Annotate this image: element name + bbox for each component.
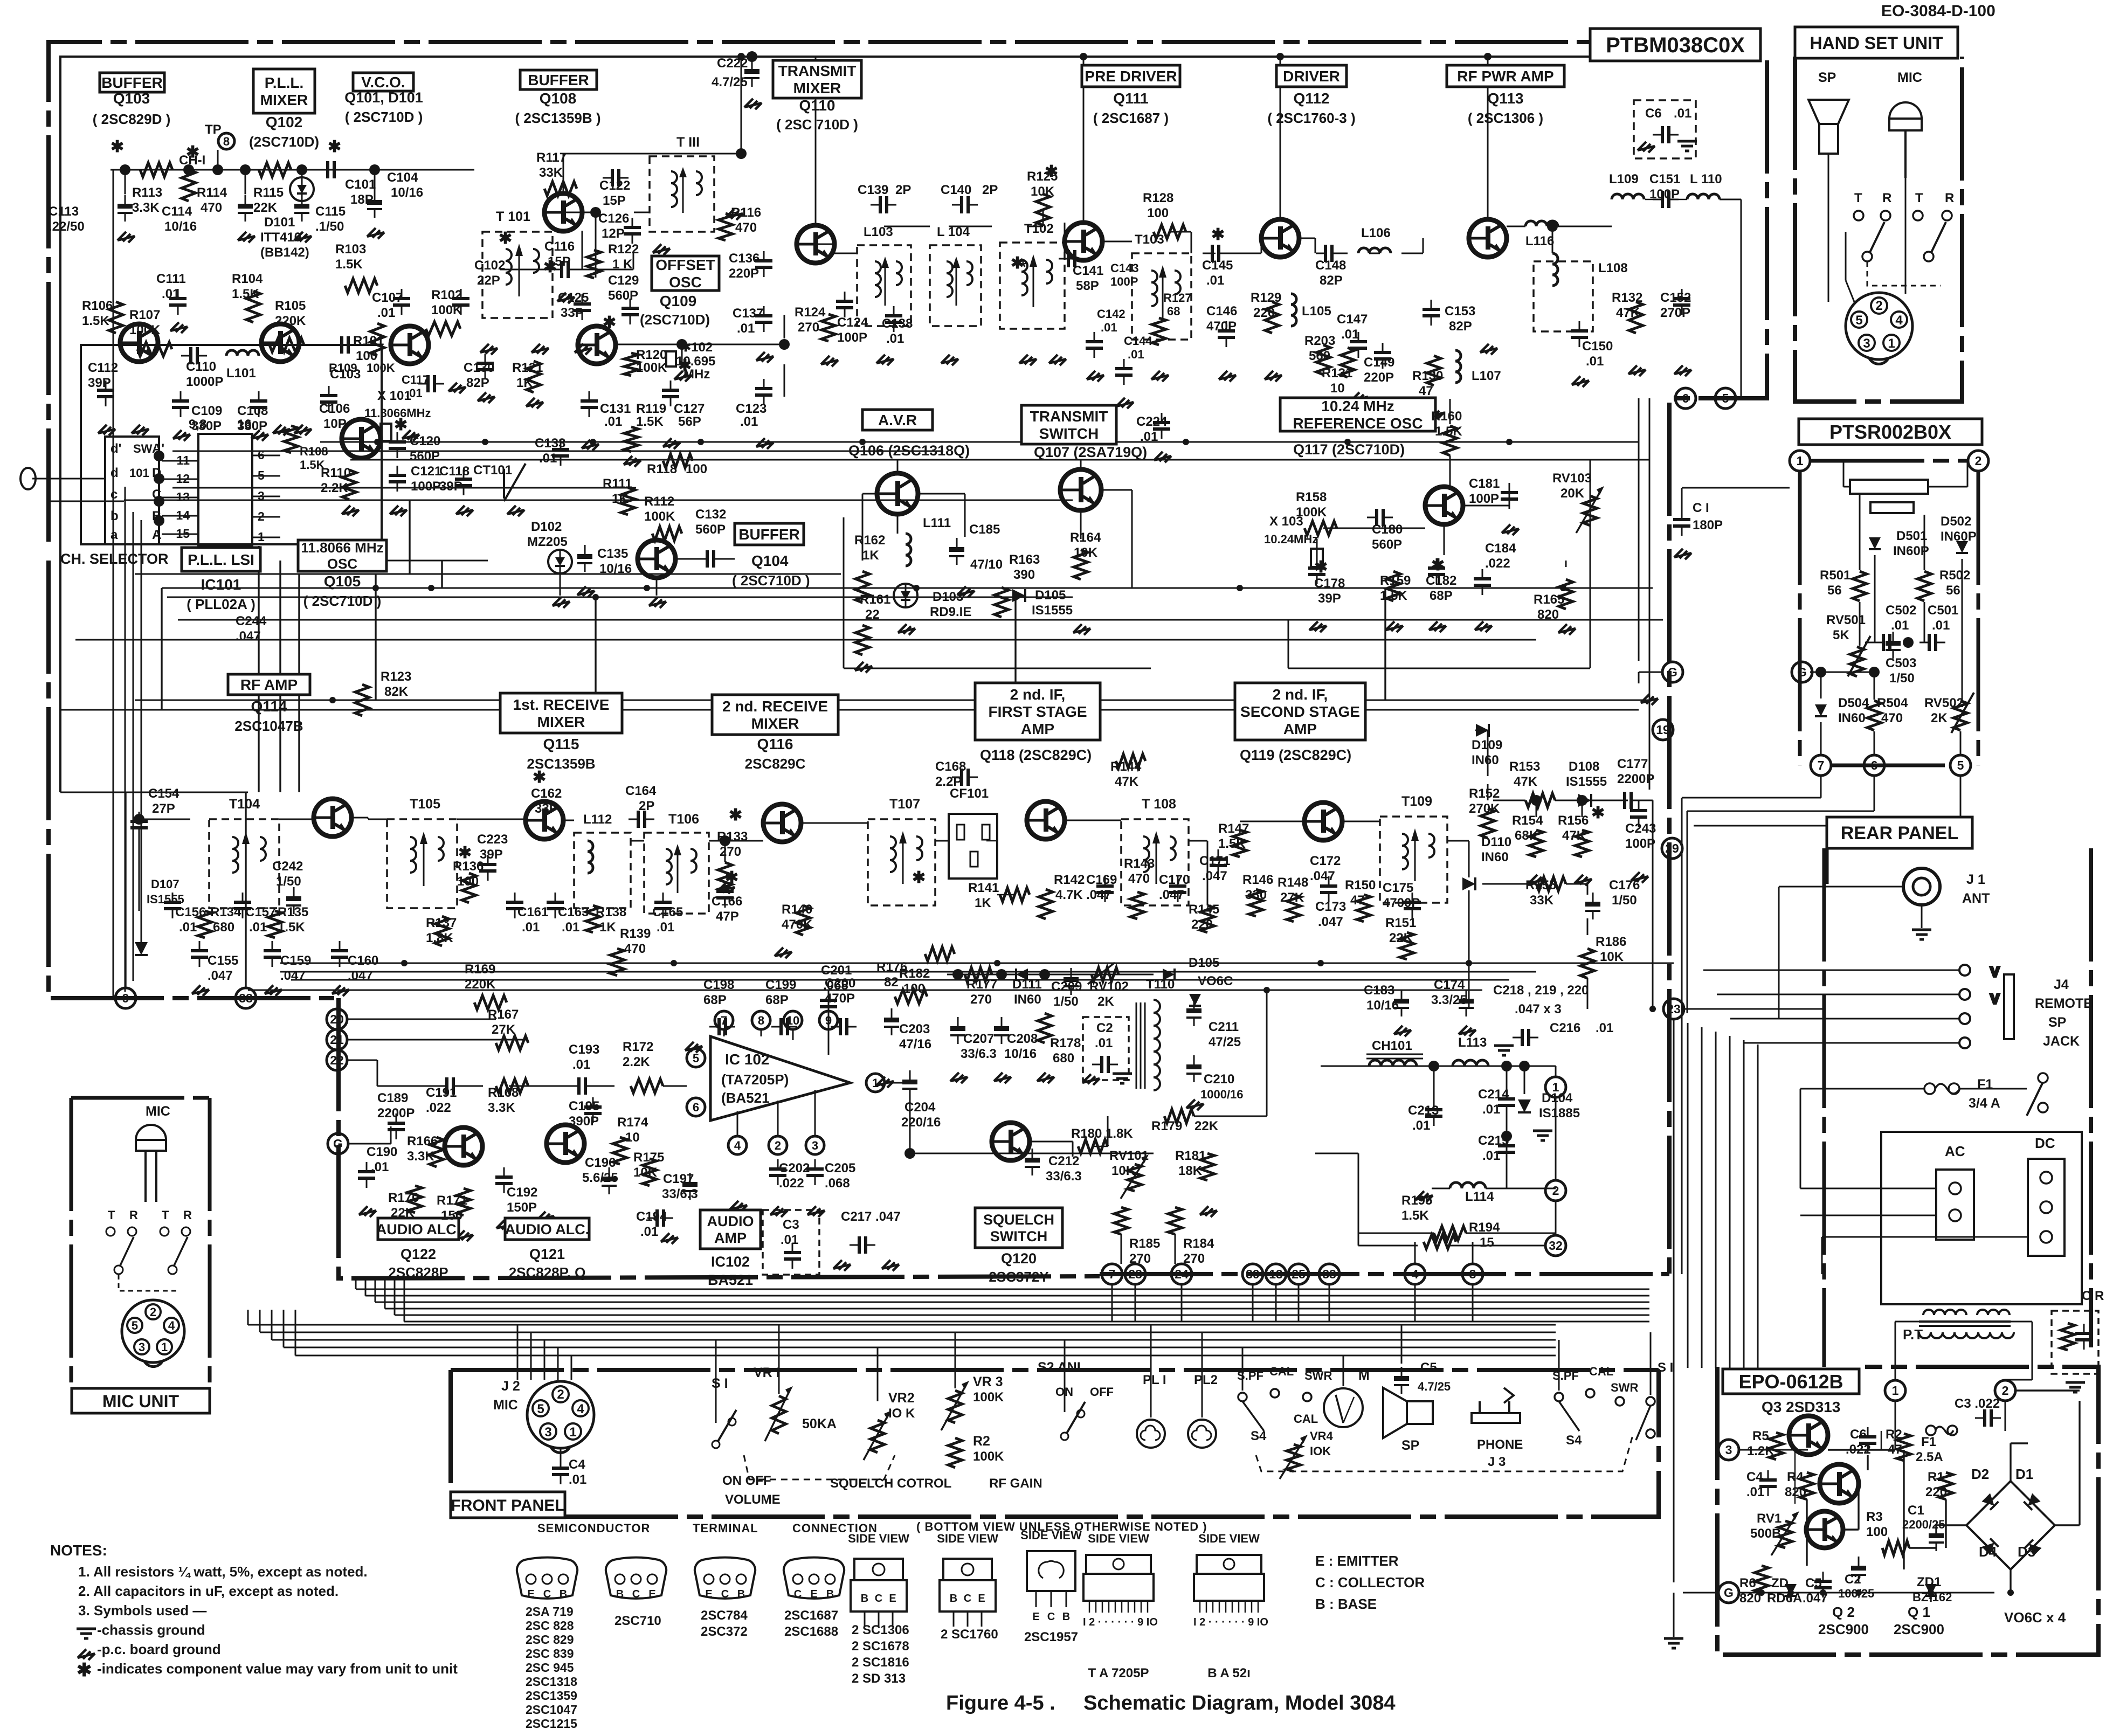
svg-text:G: G [1724,1586,1734,1600]
svg-text:C154: C154 [148,786,179,801]
svg-text:B: B [152,509,161,523]
svg-text:C164: C164 [625,784,657,798]
svg-text:C181: C181 [1469,476,1500,491]
svg-text:27K: 27K [1280,890,1304,905]
svg-text:S4: S4 [1566,1433,1582,1448]
diode D4 [1981,1538,1998,1555]
svg-text:2 SC1306: 2 SC1306 [852,1623,909,1637]
svg-text:BA521: BA521 [708,1272,753,1288]
wire Q113 collector [1487,57,1489,219]
ground q101 [402,430,419,441]
svg-text:B: B [950,1593,957,1604]
wire ic out [885,1082,910,1084]
terminal 33 [1319,1264,1339,1284]
svg-text:2P: 2P [982,183,998,197]
svg-text:3.3/25: 3.3/25 [1431,993,1467,1007]
wire left bus 4 [141,520,142,949]
svg-text:4: 4 [577,1402,584,1416]
svg-text:.022: .022 [426,1101,451,1115]
wire vertical link 3 [1014,597,1016,700]
svg-text:C502: C502 [1886,603,1916,618]
wire [1687,811,1874,812]
ground [118,232,135,243]
resistor R144 [1116,754,1145,768]
resistor R118 [663,454,693,468]
svg-text:1.5K: 1.5K [1380,589,1407,603]
capacitor C1 ptsr [1673,510,1690,536]
svg-text:R181: R181 [1175,1149,1206,1163]
svg-text:R107: R107 [129,308,160,322]
wire to PL1 [1150,1325,1152,1417]
svg-text:10/16: 10/16 [1004,1047,1037,1061]
wire [1962,559,1963,642]
ground [876,1077,894,1088]
svg-text:D111: D111 [1012,977,1042,992]
wire F1 [1800,1088,1924,1090]
terminal 1 mid [1545,1077,1566,1097]
svg-text:1.5K: 1.5K [1401,1208,1429,1223]
resistor R143 [1130,892,1144,919]
svg-text:IC102: IC102 [711,1254,750,1270]
svg-text:C115: C115 [315,204,346,219]
svg-text:7: 7 [721,1014,727,1027]
inductor L103 [857,245,911,326]
capacitor C200 [831,1018,857,1035]
svg-text:C174: C174 [1434,978,1465,992]
svg-text:R184: R184 [1183,1236,1214,1251]
resistor R114 [182,170,196,201]
capacitor C155 [191,941,208,967]
wire handset sp [1828,154,1829,302]
svg-text:.01: .01 [1596,1021,1613,1035]
svg-text:R154: R154 [1512,813,1543,828]
ground [273,425,290,435]
svg-text:R113: R113 [132,185,162,200]
svg-text:.01: .01 [1674,106,1691,121]
svg-text:S2 ANL: S2 ANL [1038,1360,1085,1375]
ground [726,209,743,220]
ground [1529,875,1546,886]
svg-text:E: E [705,1588,712,1600]
wire pin [162,534,198,535]
svg-text:C R I: C R I [2082,1289,2106,1303]
wire [884,226,930,227]
junction [212,164,223,175]
svg-text:D104: D104 [1542,1091,1573,1105]
ground [744,99,762,109]
svg-text:C208: C208 [1007,1032,1038,1046]
svg-text:C138: C138 [882,316,913,331]
ground [577,586,595,597]
wire [784,364,785,397]
meter M [1324,1388,1363,1427]
resistor heater bar [1850,480,1928,494]
svg-text:33/6.3: 33/6.3 [961,1047,997,1061]
wire [1315,1153,1358,1154]
capacitor C156 [164,893,181,918]
wire [1921,905,1923,928]
wire lower bus [248,1324,1556,1326]
capacitor C175 [1404,893,1421,918]
wire [2079,1401,2080,1525]
wire lower bus [272,1339,1556,1341]
svg-text:16: 16 [237,417,252,432]
crystal X101 [381,424,391,441]
wire [723,558,735,560]
capacitor C142 [1086,332,1103,358]
svg-text:C2: C2 [1845,1572,1861,1587]
svg-text:22K: 22K [391,1206,415,1220]
wire [862,493,877,495]
svg-text:TRANSMIT: TRANSMIT [778,63,857,79]
svg-text:C168: C168 [935,759,966,774]
svg-text:Q107 (2SA719Q): Q107 (2SA719Q) [1034,444,1147,460]
svg-text:10K: 10K [1074,545,1098,560]
svg-text:C163: C163 [558,905,589,919]
svg-text:D102: D102 [531,520,562,534]
resistor R3 [1882,1541,1909,1555]
svg-text:220: 220 [1925,1485,1947,1499]
switch S1 [712,1410,736,1448]
capacitor C3 [784,1243,801,1269]
ground [1459,1026,1476,1036]
resistor R153 [1525,793,1555,807]
svg-text:T 108: T 108 [1142,797,1176,812]
capacitor C141 [1059,250,1085,267]
svg-text:Q102: Q102 [266,114,303,130]
svg-text:1: 1 [1892,1384,1899,1398]
svg-text:R102: R102 [431,288,462,302]
ground [898,624,915,635]
transistor Q3 [1789,1416,1828,1455]
resistor R125 [1036,194,1050,225]
capacitor C150 [1571,321,1588,347]
wire [1042,210,1044,226]
resistor R120 [624,353,638,376]
wire [1800,1089,1801,1188]
svg-text:OFFSET: OFFSET [655,257,715,273]
ground [1375,398,1392,409]
resistor R151 [1400,932,1414,959]
svg-text:.047: .047 [236,629,261,644]
svg-text:82K: 82K [384,684,409,699]
diode bridge D1-D4 [1966,1481,2055,1569]
wire volume dashed route [744,1455,895,1479]
wire right bundle [1701,1027,1703,1368]
block label 2nd IF SECOND STAGE AMP [1235,683,1365,740]
svg-text:.047: .047 [1310,869,1335,883]
svg-text:R152: R152 [1469,786,1500,801]
frame main board left lower [49,561,334,998]
wire AC 2 [1800,1215,1936,1216]
svg-text:22K: 22K [1194,1119,1219,1133]
capacitor C178 [1308,558,1325,584]
diode D1 [2024,1493,2040,1510]
capacitor C122 [603,169,629,186]
svg-text:39P: 39P [88,376,111,390]
svg-text:VO6C x 4: VO6C x 4 [2004,1609,2066,1626]
wire [1414,1284,1416,1322]
ground [1386,621,1403,632]
wire to VR2 [877,1347,879,1401]
svg-text:RF PWR AMP: RF PWR AMP [1457,68,1553,85]
pot RV501 [1848,636,1870,676]
svg-text:R146: R146 [1242,873,1273,887]
switch lever mic 1 [120,1237,134,1267]
svg-text:68P: 68P [765,993,789,1007]
svg-text:2SC784: 2SC784 [701,1608,748,1623]
wire stub [259,1310,261,1332]
wire R4 down [1806,1499,1807,1566]
svg-text:.01: .01 [1341,327,1359,342]
svg-text:101: 101 [129,466,149,480]
svg-text:d: d [111,466,119,480]
svg-text:220/16: 220/16 [901,1115,941,1130]
svg-text:C141: C141 [1073,264,1103,278]
transistor Q105b [342,419,381,458]
svg-text:Q101, D101: Q101, D101 [344,89,423,106]
svg-text:C190: C190 [367,1145,397,1159]
svg-text:DC: DC [2035,1135,2055,1151]
wire [457,819,526,820]
svg-text:A.V.R: A.V.R [878,412,917,428]
wire [139,812,140,819]
wire bottom bus [385,1308,1649,1310]
svg-text:5K: 5K [1833,628,1849,642]
frame hand set unit [1795,57,1962,402]
svg-text:R165: R165 [1534,592,1564,607]
junction [1820,1589,1826,1596]
svg-text:S4: S4 [1251,1429,1267,1443]
svg-text:2200/25: 2200/25 [1902,1518,1945,1531]
junction [183,164,194,175]
svg-text:T107: T107 [889,797,920,812]
ground [265,985,282,996]
wire [1587,978,1589,1009]
svg-text:5: 5 [258,468,265,482]
transformer T105 [387,819,457,908]
svg-text:6: 6 [693,1101,699,1114]
capacitor CR1 [2075,1324,2093,1350]
wire C113 [125,170,126,194]
svg-text:47P: 47P [716,909,739,924]
svg-text:1: 1 [1888,336,1895,351]
wire bridge right [2055,1524,2080,1526]
resistor R139 [610,949,624,976]
svg-text:270: 270 [720,845,741,859]
capacitor C192 [495,1167,513,1193]
svg-text:4: 4 [734,1139,741,1152]
wire [1682,797,1821,799]
svg-text:100K: 100K [644,509,675,524]
capacitor C194 [647,1209,673,1227]
wire [1652,800,1654,1009]
block label PLL LSI [182,548,260,571]
svg-text:8: 8 [223,135,230,148]
resistor R178 [1038,1013,1052,1043]
capacitor C2 epo [1851,1557,1866,1583]
ground [448,383,466,393]
junction [296,164,307,175]
svg-text:20K: 20K [1560,486,1585,501]
svg-text:C211: C211 [1209,1020,1239,1034]
junction bus H [1237,585,1243,591]
terminal 7 ptsr [1811,755,1831,776]
ground [78,1649,95,1660]
svg-text:✱: ✱ [533,769,546,786]
svg-text:3. Symbols used —: 3. Symbols used — [78,1602,206,1619]
capacitor C176 [1585,893,1600,919]
svg-text:47K: 47K [1562,828,1586,843]
terminal 20 [327,1009,347,1029]
wire [792,1029,794,1040]
svg-text:180P: 180P [1693,518,1723,532]
svg-text:1.5K: 1.5K [636,414,664,429]
wire [1865,672,1874,673]
svg-text:C: C [964,1593,971,1604]
wire [1673,1593,1675,1637]
wire R3 to C1 [1909,1547,1936,1548]
transistor Q120 [992,1123,1030,1160]
wire to terminal 9 [125,792,126,988]
wire [1506,1066,1508,1090]
wire bridge bottom [2010,1569,2011,1593]
wire stub [375,1278,376,1302]
wire from G [348,1143,391,1145]
wire [1080,510,1082,539]
wire avr loop left [843,517,845,668]
wire [909,1097,911,1153]
wire bus E [124,500,1073,501]
svg-text:R109: R109 [329,361,357,375]
resistor R6 [1755,1566,1769,1593]
capacitor C169 [1096,876,1114,902]
svg-text:C205: C205 [825,1161,855,1175]
svg-text:SQUELCH: SQUELCH [983,1212,1054,1228]
wire [1191,232,1192,253]
resistor R140 [796,905,810,935]
svg-text:C133: C133 [535,436,565,451]
svg-text:R103: R103 [335,242,366,257]
svg-text:PL I: PL I [1143,1373,1166,1387]
svg-text:C108: C108 [237,404,268,418]
resistor R132 [1629,302,1643,333]
package 2SA719 family [517,1558,577,1600]
svg-text:R114: R114 [197,185,227,200]
svg-text:2.2K: 2.2K [321,481,348,495]
wire bus B [172,451,943,452]
resistor R177 [965,967,992,981]
diode D101 [290,177,314,201]
svg-text:C177: C177 [1617,757,1648,771]
capacitor C2 [1092,1056,1118,1073]
junction bus A [1344,439,1351,445]
terminal G audio [328,1133,348,1154]
svg-text:R140: R140 [782,902,812,917]
ground [821,356,838,366]
ground [770,1206,788,1217]
svg-text:.022: .022 [779,1176,804,1191]
inductor L101 [226,350,259,356]
contact handset [1854,211,1863,220]
frame front panel top [451,1368,1659,1372]
resistor R122 [587,250,601,278]
svg-text:R502: R502 [1939,568,1970,583]
svg-text:10/16: 10/16 [1366,998,1399,1013]
capacitor C216 [1513,1029,1538,1046]
junction [1276,53,1284,60]
resistor heater bar 2 [1870,502,1914,513]
ground [756,352,774,363]
junction [1787,1589,1794,1596]
svg-text:✱: ✱ [1011,254,1024,272]
wire [801,822,868,824]
wire [1536,800,1537,817]
svg-text:1.8K: 1.8K [426,931,453,945]
svg-text:10P: 10P [323,417,347,431]
wire from 22 [347,1060,377,1061]
svg-text:CAL: CAL [1294,1412,1318,1426]
svg-text:C193: C193 [569,1042,599,1057]
fuse F1 [1924,1083,1935,1094]
svg-text:270P: 270P [1660,306,1690,320]
svg-text:C170: C170 [1159,873,1190,887]
inductor L114 [1450,1182,1486,1188]
svg-text:R3: R3 [1866,1510,1883,1524]
svg-text:100K: 100K [973,1449,1004,1464]
wire R2 down [1903,1450,1904,1569]
wire [897,514,899,534]
svg-text:C132: C132 [695,507,726,522]
svg-text:.01: .01 [371,1160,389,1174]
resistor R112 [652,527,682,541]
svg-text:28: 28 [1128,1267,1142,1281]
svg-text:IC 102: IC 102 [725,1051,770,1068]
svg-text:C162: C162 [531,786,562,801]
svg-text:220K: 220K [275,314,306,328]
svg-text:C140: C140 [941,183,971,197]
wire [631,840,644,842]
wire [1859,602,1861,646]
svg-text:C107: C107 [372,291,403,305]
wire [1316,539,1318,558]
transistor Q104 [638,540,675,578]
svg-text:82P: 82P [1320,273,1343,288]
svg-text:R119: R119 [636,402,666,416]
svg-text:E: E [810,1588,817,1600]
capacitor C208 [994,1017,1009,1044]
capacitor C104 [367,191,382,218]
wire [997,894,1014,896]
wire drop terminal [1252,1284,1254,1322]
svg-text:.01: .01 [572,1057,590,1072]
svg-text:.01: .01 [377,306,395,320]
capacitor C168 [952,769,978,786]
capacitor C214 [1498,1089,1515,1115]
transistor Q118 [1027,801,1065,839]
transistor Q109 [578,326,616,364]
svg-text:BUFFER: BUFFER [101,74,163,91]
wire 1 to Q [1895,1401,1896,1450]
svg-text:2SC900: 2SC900 [1894,1621,1944,1637]
ground [775,947,792,958]
svg-text:R108: R108 [300,445,328,458]
capacitor C202 [769,1159,786,1185]
svg-text:2SC1687: 2SC1687 [784,1608,838,1623]
svg-text:R: R [129,1208,138,1222]
svg-text:29: 29 [1665,841,1679,855]
terminal 22 [327,1050,347,1070]
